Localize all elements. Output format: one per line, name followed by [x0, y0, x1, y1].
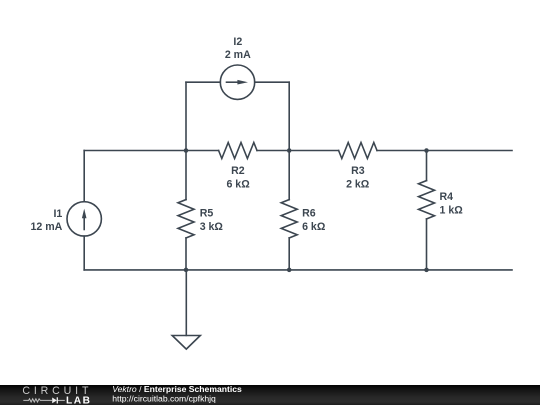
- label I2 value 2 mA: [225, 49, 251, 61]
- svg-text:R3: R3: [351, 165, 365, 177]
- label I2: [233, 36, 242, 48]
- wire: R6 top lead: [288, 151, 290, 200]
- node: junction R5/ground/bottom rail: [184, 268, 189, 273]
- wire: top rail from left corner to R2: [84, 150, 218, 152]
- label I1: [53, 208, 62, 220]
- svg-text:Vektro / Enterprise Schemantic: Vektro / Enterprise Schemantics: [112, 384, 242, 394]
- svg-text:1 kΩ: 1 kΩ: [440, 204, 464, 216]
- wire: I2 loop left vertical: [185, 82, 187, 150]
- svg-text:6 kΩ: 6 kΩ: [226, 178, 250, 190]
- label I1 value 12 mA: [31, 221, 63, 233]
- resistor R6: [281, 200, 297, 238]
- wire: I2 loop right horizontal: [255, 81, 290, 83]
- wire: R5 top lead: [185, 151, 187, 200]
- resistor R5: [178, 200, 194, 238]
- wire: bottom rail: [84, 269, 512, 271]
- svg-text:12 mA: 12 mA: [31, 221, 63, 233]
- node: junction R6/top rail: [287, 148, 292, 153]
- svg-text:http://circuitlab.com/cpfkhjq: http://circuitlab.com/cpfkhjq: [112, 394, 216, 404]
- wire: top rail between R2 and R3: [257, 150, 339, 152]
- label R2 value 6 kOhm: [226, 178, 250, 190]
- logo LAB text: [66, 395, 91, 405]
- svg-text:I1: I1: [53, 208, 62, 220]
- wire: ground stem: [185, 270, 187, 336]
- footer url text: [112, 394, 216, 404]
- svg-text:LAB: LAB: [66, 395, 91, 405]
- svg-text:R5: R5: [200, 207, 214, 219]
- svg-text:R6: R6: [302, 207, 316, 219]
- footer title text: [112, 384, 242, 394]
- current source I2: [220, 65, 254, 99]
- logo resistor zigzag: [23, 399, 52, 402]
- label R5 value 3 kOhm: [200, 221, 224, 233]
- svg-text:6 kΩ: 6 kΩ: [302, 221, 326, 233]
- ground: [172, 336, 200, 350]
- label R3 value 2 kOhm: [346, 178, 370, 190]
- resistor R4: [419, 181, 435, 219]
- node: junction R4/top rail: [424, 148, 429, 153]
- resistor R2: [219, 143, 257, 159]
- wire: R6 bottom lead: [288, 238, 290, 270]
- wire: R4 bottom lead: [426, 219, 428, 270]
- resistor R3: [339, 143, 377, 159]
- node: junction R5/top rail: [184, 148, 189, 153]
- wire: left rail upper segment: [83, 151, 85, 202]
- wire: I2 loop right vertical: [288, 82, 290, 150]
- label R5: [200, 207, 214, 219]
- logo CIRCUIT text: [22, 385, 92, 397]
- node: junction R6/bottom rail: [287, 268, 292, 273]
- svg-text:R4: R4: [440, 191, 454, 203]
- label R4: [440, 191, 454, 203]
- svg-text:R2: R2: [231, 165, 245, 177]
- logo diode symbol: [52, 397, 65, 403]
- current source I1: [67, 202, 101, 236]
- label R6: [302, 207, 316, 219]
- node: junction R4/bottom rail: [424, 268, 429, 273]
- label R6 value 6 kOhm: [302, 221, 326, 233]
- wire: top rail from R3 to right end: [377, 150, 512, 152]
- label R2: [231, 165, 245, 177]
- svg-text:2 kΩ: 2 kΩ: [346, 178, 370, 190]
- wire: R4 top lead: [426, 151, 428, 181]
- footer bar: [0, 385, 540, 405]
- label R3: [351, 165, 365, 177]
- svg-text:I2: I2: [233, 36, 242, 48]
- label R4 value 1 kOhm: [440, 204, 464, 216]
- wire: I2 loop left horizontal: [186, 81, 220, 83]
- svg-text:3 kΩ: 3 kΩ: [200, 221, 224, 233]
- wire: R5 bottom lead: [185, 238, 187, 270]
- svg-text:2 mA: 2 mA: [225, 49, 251, 61]
- wire: left rail lower segment: [83, 236, 85, 270]
